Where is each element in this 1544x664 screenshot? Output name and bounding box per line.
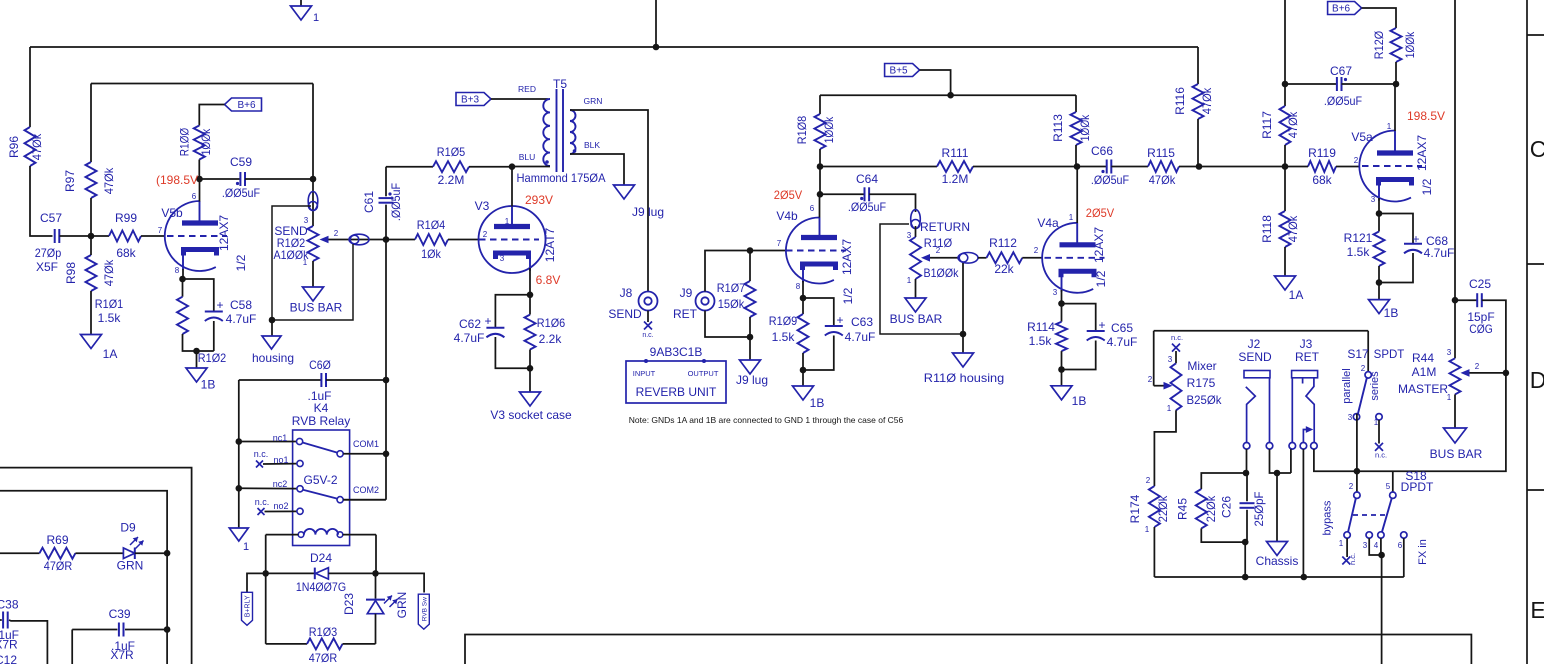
svg-text:V5b: V5b xyxy=(161,206,183,220)
svg-text:C6Ø: C6Ø xyxy=(309,358,331,372)
svg-text:C: C xyxy=(1530,136,1544,162)
svg-text:C62: C62 xyxy=(459,317,481,331)
svg-text:C39: C39 xyxy=(109,607,131,621)
svg-text:RED: RED xyxy=(518,84,536,94)
svg-text:B+3: B+3 xyxy=(461,95,480,106)
svg-text:47Øk: 47Øk xyxy=(1200,87,1214,114)
svg-text:C58: C58 xyxy=(230,298,252,312)
svg-text:D23: D23 xyxy=(342,593,356,615)
svg-text:C59: C59 xyxy=(230,155,252,169)
svg-text:nc1: nc1 xyxy=(273,433,288,443)
svg-text:1A: 1A xyxy=(103,347,118,361)
svg-text:R113: R113 xyxy=(1051,114,1065,142)
svg-text:6: 6 xyxy=(192,192,197,201)
svg-text:C12: C12 xyxy=(0,653,17,664)
svg-text:OUTPUT: OUTPUT xyxy=(688,369,719,378)
svg-text:1B: 1B xyxy=(810,396,825,410)
svg-text:C63: C63 xyxy=(851,315,873,329)
svg-text:J3: J3 xyxy=(1300,337,1313,351)
svg-text:GRN: GRN xyxy=(395,592,409,619)
svg-text:COM1: COM1 xyxy=(353,439,379,449)
svg-text:R1Ø8: R1Ø8 xyxy=(795,116,809,145)
svg-text:1: 1 xyxy=(1145,525,1150,534)
svg-text:3: 3 xyxy=(1447,348,1452,357)
svg-text:INPUT: INPUT xyxy=(633,369,656,378)
svg-text:2: 2 xyxy=(483,230,488,239)
svg-text:R1Ø2: R1Ø2 xyxy=(198,351,227,365)
svg-text:no2: no2 xyxy=(273,501,288,511)
svg-text:12AX7: 12AX7 xyxy=(840,239,854,275)
svg-text:SEND: SEND xyxy=(608,307,642,321)
svg-text:n.c.: n.c. xyxy=(1348,553,1357,565)
svg-text:n.c.: n.c. xyxy=(642,332,653,339)
svg-text:B+RLY: B+RLY xyxy=(245,595,252,617)
svg-text:R119: R119 xyxy=(1308,146,1336,160)
svg-text:R114: R114 xyxy=(1027,320,1055,334)
svg-text:1A: 1A xyxy=(1289,288,1304,302)
svg-text:1/2: 1/2 xyxy=(841,287,855,304)
svg-text:1ØØk: 1ØØk xyxy=(1078,114,1092,141)
svg-text:GRN: GRN xyxy=(584,96,603,106)
svg-text:22Øk: 22Øk xyxy=(1156,495,1170,522)
svg-text:RVB Relay: RVB Relay xyxy=(292,414,350,428)
svg-text:+: + xyxy=(1412,232,1419,246)
svg-text:1Øk: 1Øk xyxy=(421,247,442,261)
svg-text:9AB3C1B: 9AB3C1B xyxy=(650,345,703,359)
svg-text:R12Ø: R12Ø xyxy=(1372,31,1386,59)
svg-text:R1Ø3: R1Ø3 xyxy=(309,625,338,639)
svg-text:D: D xyxy=(1530,367,1544,393)
svg-text:MASTER: MASTER xyxy=(1398,382,1448,396)
svg-text:22Øk: 22Øk xyxy=(1204,495,1218,522)
svg-text:47ØR: 47ØR xyxy=(44,559,73,573)
svg-text:R116: R116 xyxy=(1173,87,1187,115)
svg-text:1.5k: 1.5k xyxy=(98,311,122,325)
svg-text:S17: S17 xyxy=(1347,347,1369,361)
svg-text:3: 3 xyxy=(907,231,912,240)
svg-text:R96: R96 xyxy=(7,136,21,158)
svg-text:2: 2 xyxy=(936,246,941,255)
svg-text:G5V-2: G5V-2 xyxy=(303,473,337,487)
svg-text:47Øk: 47Øk xyxy=(30,133,44,160)
svg-text:1: 1 xyxy=(1339,539,1344,548)
svg-text:FX in: FX in xyxy=(1417,539,1429,565)
svg-text:B1ØØk: B1ØØk xyxy=(924,266,960,280)
svg-text:+: + xyxy=(216,298,223,312)
svg-text:RVB Sw: RVB Sw xyxy=(421,597,428,621)
svg-text:+: + xyxy=(836,313,843,327)
svg-text:C25: C25 xyxy=(1469,277,1491,291)
svg-text:15Øk: 15Øk xyxy=(718,297,745,311)
svg-text:2: 2 xyxy=(1148,375,1153,384)
svg-text:J2: J2 xyxy=(1248,337,1261,351)
svg-text:SPDT: SPDT xyxy=(1374,349,1405,361)
svg-text:RET: RET xyxy=(673,307,698,321)
svg-text:.ØØ5uF: .ØØ5uF xyxy=(1324,94,1362,108)
svg-text:2: 2 xyxy=(1361,364,1366,373)
svg-text:BLK: BLK xyxy=(584,140,600,150)
svg-text:housing: housing xyxy=(252,351,294,365)
svg-text:8: 8 xyxy=(796,282,801,291)
svg-text:3: 3 xyxy=(1168,355,1173,364)
svg-text:1.2M: 1.2M xyxy=(942,172,969,186)
svg-text:DPDT: DPDT xyxy=(1401,480,1434,494)
svg-text:1B: 1B xyxy=(201,378,216,392)
svg-text:3: 3 xyxy=(1053,288,1058,297)
svg-text:47Øk: 47Øk xyxy=(1149,173,1176,187)
svg-text:R1Ø4: R1Ø4 xyxy=(417,218,446,232)
svg-text:2Ø5V: 2Ø5V xyxy=(1086,206,1114,220)
svg-text:3: 3 xyxy=(1371,195,1376,204)
svg-text:GRN: GRN xyxy=(117,559,144,573)
svg-text:12AX7: 12AX7 xyxy=(1092,227,1106,263)
svg-text:REVERB UNIT: REVERB UNIT xyxy=(636,385,717,399)
svg-text:1ØØk: 1ØØk xyxy=(1403,31,1417,58)
svg-text:4.7uF: 4.7uF xyxy=(845,330,876,344)
svg-text:.ØØ5uF: .ØØ5uF xyxy=(222,186,260,200)
svg-text:R45: R45 xyxy=(1176,498,1190,520)
svg-text:4.7uF: 4.7uF xyxy=(1424,246,1455,260)
svg-text:R117: R117 xyxy=(1260,111,1274,139)
svg-text:SEND: SEND xyxy=(1238,350,1272,364)
svg-text:25ØpF: 25ØpF xyxy=(1252,492,1266,527)
svg-text:2Ø5V: 2Ø5V xyxy=(774,188,802,202)
svg-text:.ØØ5uF: .ØØ5uF xyxy=(1091,173,1129,187)
svg-text:V3 socket case: V3 socket case xyxy=(490,408,572,422)
svg-text:BUS BAR: BUS BAR xyxy=(290,301,343,315)
svg-text:R174: R174 xyxy=(1128,494,1142,523)
svg-text:R1Ø1: R1Ø1 xyxy=(95,297,124,311)
svg-text:.ØØ5uF: .ØØ5uF xyxy=(389,183,403,221)
svg-text:n.c.: n.c. xyxy=(1171,333,1183,342)
svg-text:R1Ø9: R1Ø9 xyxy=(769,314,798,328)
svg-text:n.c.: n.c. xyxy=(254,449,269,459)
svg-text:1.5k: 1.5k xyxy=(1347,245,1371,259)
svg-text:n.c.: n.c. xyxy=(1375,451,1387,460)
svg-text:2: 2 xyxy=(1354,156,1359,165)
svg-text:B+6: B+6 xyxy=(237,100,256,111)
svg-text:J8: J8 xyxy=(620,286,633,300)
svg-text:1ØØk: 1ØØk xyxy=(822,116,836,143)
svg-text:R1Ø6: R1Ø6 xyxy=(537,316,566,330)
svg-text:(198.5V: (198.5V xyxy=(156,173,198,187)
svg-text:B25Øk: B25Øk xyxy=(1187,393,1223,407)
svg-text:RETURN: RETURN xyxy=(920,220,970,234)
svg-text:A1M: A1M xyxy=(1412,365,1437,379)
svg-text:1B: 1B xyxy=(1072,394,1087,408)
svg-text:C64: C64 xyxy=(856,172,878,186)
svg-text:R97: R97 xyxy=(63,170,77,192)
svg-text:4: 4 xyxy=(1374,541,1379,550)
svg-text:68k: 68k xyxy=(116,246,136,260)
svg-text:1/2: 1/2 xyxy=(234,254,248,271)
svg-text:D9: D9 xyxy=(120,521,136,535)
svg-text:1: 1 xyxy=(313,12,319,24)
svg-text:47Øk: 47Øk xyxy=(102,167,116,194)
svg-text:47ØR: 47ØR xyxy=(309,651,338,664)
svg-text:2: 2 xyxy=(1475,362,1480,371)
svg-text:R1ØØ: R1ØØ xyxy=(178,128,192,156)
svg-text:1: 1 xyxy=(1374,418,1379,427)
svg-text:6: 6 xyxy=(1398,541,1403,550)
svg-text:6: 6 xyxy=(810,204,815,213)
svg-text:1N4ØØ7G: 1N4ØØ7G xyxy=(296,580,346,594)
svg-text:1: 1 xyxy=(1387,122,1392,131)
svg-text:293V: 293V xyxy=(525,193,553,207)
svg-text:R11Ø housing: R11Ø housing xyxy=(924,371,1004,385)
svg-text:1: 1 xyxy=(1069,213,1074,222)
svg-text:2: 2 xyxy=(334,229,339,238)
svg-text:J9: J9 xyxy=(680,286,693,300)
svg-text:1/2: 1/2 xyxy=(1420,178,1434,195)
svg-text:R98: R98 xyxy=(64,262,78,284)
svg-text:1: 1 xyxy=(505,217,510,226)
svg-text:R99: R99 xyxy=(115,211,137,225)
svg-text:nc2: nc2 xyxy=(273,479,288,489)
svg-text:4.7uF: 4.7uF xyxy=(226,312,257,326)
svg-text:E: E xyxy=(1530,597,1544,623)
svg-text:R111: R111 xyxy=(942,146,969,160)
svg-text:C57: C57 xyxy=(40,211,62,225)
svg-text:+: + xyxy=(484,314,491,328)
svg-text:4.7uF: 4.7uF xyxy=(454,331,485,345)
svg-text:3: 3 xyxy=(1363,541,1368,550)
svg-text:parallel: parallel xyxy=(1341,368,1353,403)
svg-text:n.c.: n.c. xyxy=(255,497,270,507)
svg-text:R118: R118 xyxy=(1260,215,1274,243)
svg-text:R1Ø5: R1Ø5 xyxy=(437,145,466,159)
svg-text:7: 7 xyxy=(158,226,163,235)
svg-text:Chassis: Chassis xyxy=(1256,554,1299,568)
svg-text:R121: R121 xyxy=(1344,231,1373,245)
svg-text:47Øk: 47Øk xyxy=(1286,215,1300,242)
svg-text:12AT7: 12AT7 xyxy=(543,227,557,262)
svg-text:J9 lug: J9 lug xyxy=(736,373,768,387)
svg-text:X7R: X7R xyxy=(0,638,18,652)
svg-text:R175: R175 xyxy=(1187,376,1216,390)
svg-text:R69: R69 xyxy=(46,533,68,547)
svg-text:T5: T5 xyxy=(553,77,567,91)
svg-text:BUS BAR: BUS BAR xyxy=(1430,447,1483,461)
svg-text:2: 2 xyxy=(1146,476,1151,485)
svg-text:series: series xyxy=(1369,371,1381,401)
svg-text:Hammond 175ØA: Hammond 175ØA xyxy=(517,171,606,185)
svg-text:7: 7 xyxy=(777,239,782,248)
svg-text:COM2: COM2 xyxy=(353,485,379,495)
svg-text:2.2M: 2.2M xyxy=(438,173,465,187)
svg-text:C67: C67 xyxy=(1330,64,1352,78)
svg-text:1: 1 xyxy=(907,276,912,285)
svg-text:BLU: BLU xyxy=(519,152,536,162)
svg-text:47Øk: 47Øk xyxy=(1286,111,1300,138)
svg-text:R1Ø7: R1Ø7 xyxy=(717,281,746,295)
svg-text:bypass: bypass xyxy=(1322,500,1334,535)
svg-text:V3: V3 xyxy=(475,199,490,213)
svg-text:2.2k: 2.2k xyxy=(539,332,563,346)
svg-text:1: 1 xyxy=(1167,404,1172,413)
svg-text:RET: RET xyxy=(1295,350,1320,364)
svg-text:4.7uF: 4.7uF xyxy=(1107,335,1138,349)
svg-text:V5a: V5a xyxy=(1351,130,1373,144)
svg-text:R115: R115 xyxy=(1147,146,1175,160)
svg-text:V4a: V4a xyxy=(1037,216,1059,230)
svg-text:C38: C38 xyxy=(0,598,19,612)
svg-text:8: 8 xyxy=(175,266,180,275)
svg-text:K4: K4 xyxy=(314,401,329,415)
svg-text:68k: 68k xyxy=(1312,173,1332,187)
svg-text:5: 5 xyxy=(1386,482,1391,491)
svg-text:.ØØ5uF: .ØØ5uF xyxy=(848,200,886,214)
svg-text:X5F: X5F xyxy=(36,260,58,274)
svg-text:27Øp: 27Øp xyxy=(35,246,62,260)
svg-text:V4b: V4b xyxy=(776,209,798,223)
svg-text:R44: R44 xyxy=(1412,351,1434,365)
svg-text:B+6: B+6 xyxy=(1332,4,1351,15)
svg-text:22k: 22k xyxy=(994,262,1014,276)
svg-text:J9 lug: J9 lug xyxy=(632,205,664,219)
svg-text:198.5V: 198.5V xyxy=(1407,109,1445,123)
svg-text:C65: C65 xyxy=(1111,321,1133,335)
svg-text:R112: R112 xyxy=(989,236,1017,250)
svg-text:1/2: 1/2 xyxy=(1094,270,1108,287)
svg-text:1: 1 xyxy=(243,541,249,553)
svg-text:2: 2 xyxy=(1034,246,1039,255)
svg-text:BUS BAR: BUS BAR xyxy=(890,312,943,326)
svg-text:12AX7: 12AX7 xyxy=(217,215,231,251)
svg-text:3: 3 xyxy=(1348,413,1353,422)
svg-text:X7R: X7R xyxy=(110,648,134,662)
svg-text:C66: C66 xyxy=(1091,144,1113,158)
svg-text:Note: GNDs 1A and 1B are conne: Note: GNDs 1A and 1B are connected to GN… xyxy=(629,415,904,425)
svg-text:2: 2 xyxy=(1349,482,1354,491)
svg-text:47Øk: 47Øk xyxy=(102,259,116,286)
svg-text:C61: C61 xyxy=(362,191,376,213)
svg-text:6.8V: 6.8V xyxy=(536,273,561,287)
svg-text:1B: 1B xyxy=(1384,306,1399,320)
svg-text:B+5: B+5 xyxy=(890,66,909,77)
svg-text:1.5k: 1.5k xyxy=(772,330,796,344)
svg-text:A1ØØk: A1ØØk xyxy=(274,248,310,262)
svg-text:1ØØk: 1ØØk xyxy=(199,128,213,155)
svg-text:3: 3 xyxy=(500,254,505,263)
svg-text:D24: D24 xyxy=(310,551,332,565)
svg-text:+: + xyxy=(1098,318,1105,332)
svg-text:C26: C26 xyxy=(1220,496,1234,518)
svg-text:no1: no1 xyxy=(273,455,288,465)
svg-text:Mixer: Mixer xyxy=(1187,359,1216,373)
svg-text:12AX7: 12AX7 xyxy=(1415,135,1429,171)
svg-text:1.5k: 1.5k xyxy=(1029,334,1053,348)
svg-text:CØG: CØG xyxy=(1469,322,1493,336)
